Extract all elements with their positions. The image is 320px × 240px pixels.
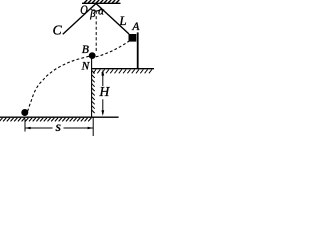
vertical dashed line from O (95, 11, 97, 53)
s extension line left (24, 119, 26, 132)
svg-text:s: s (56, 120, 62, 135)
ground line (0, 116, 119, 118)
ball at B (89, 52, 96, 59)
pedestal edge hatching (92, 71, 95, 114)
svg-text:L: L (118, 13, 126, 28)
post under ball / pedestal left edge (91, 59, 93, 118)
wall under A (137, 32, 139, 69)
svg-text:N: N (81, 61, 91, 73)
block A (filled square) (129, 34, 137, 42)
ceiling hatching (84, 0, 119, 3)
H dimension line (102, 72, 104, 114)
svg-text:α: α (98, 6, 104, 18)
s dimension line (25, 127, 93, 129)
ledge top line (92, 68, 154, 70)
ceiling line (82, 2, 121, 4)
ledge hatching (93, 70, 152, 74)
string OC (63, 4, 96, 35)
svg-text:B: B (82, 44, 89, 56)
string OA (96, 4, 129, 35)
svg-text:A: A (131, 21, 140, 33)
svg-text:C: C (53, 22, 63, 37)
s extension line right (92, 118, 94, 137)
angle arc at O (90, 9, 101, 12)
svg-text:H: H (99, 84, 111, 99)
ball on ground (21, 109, 28, 116)
projectile trajectory (dashed) (28, 56, 89, 111)
ground hatching (0, 118, 91, 122)
swing arc B to A (dashed) (96, 38, 133, 57)
svg-text:β: β (89, 9, 96, 20)
